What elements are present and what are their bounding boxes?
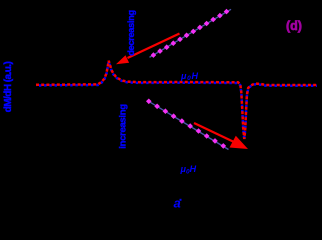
main curve blue dashed (field-down sweep) xyxy=(36,62,317,140)
svg-text:μ0H: μ0H xyxy=(180,71,199,82)
main curve red dashed (field-up sweep, on top) xyxy=(36,61,317,139)
red arrow 1 pointing to peak xyxy=(128,34,180,59)
upper marker series connecting line xyxy=(150,9,232,57)
upper marker series diamonds xyxy=(151,9,230,58)
svg-text:decreasing: decreasing xyxy=(126,10,136,56)
svg-text:dM/dH (a.u.): dM/dH (a.u.) xyxy=(3,61,14,112)
svg-text:a: a xyxy=(174,196,181,210)
red arrow 2 pointing to dip bottom xyxy=(194,123,234,142)
svg-text:μ0H: μ0H xyxy=(180,164,197,175)
svg-text:(d): (d) xyxy=(286,19,302,33)
svg-text:increasing: increasing xyxy=(118,104,129,149)
lower marker series connecting line xyxy=(147,100,229,149)
lower marker series diamonds xyxy=(146,99,226,149)
